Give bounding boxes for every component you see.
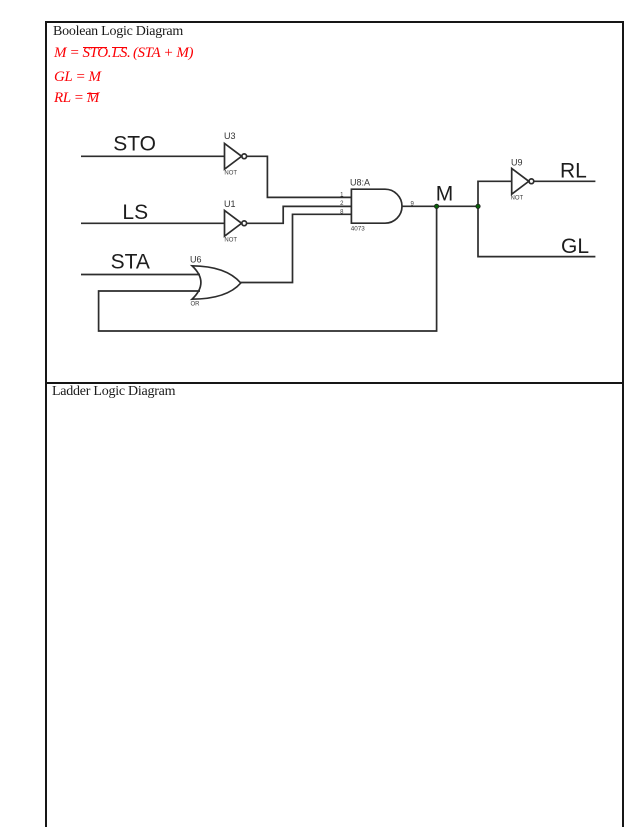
svg-text:OR: OR (191, 301, 201, 307)
svg-text:GL: GL (561, 235, 589, 258)
equation M = STO.LS.(STA+M) (54, 45, 193, 62)
section divider (45, 382, 624, 384)
wire AND output to node M (402, 205, 478, 207)
wire STO input (81, 155, 225, 157)
inverter U3 (225, 143, 247, 169)
wire U3 output to AND pin 1 (247, 156, 352, 197)
svg-text:4073: 4073 (351, 225, 366, 232)
wire STA input (81, 274, 200, 276)
svg-text:NOT: NOT (224, 171, 237, 177)
svg-text:STA: STA (111, 250, 150, 273)
inverter U1 (225, 210, 247, 236)
svg-text:U6: U6 (190, 255, 202, 265)
wire feedback M to OR input (99, 206, 437, 331)
svg-text:U9: U9 (511, 157, 523, 167)
wire GL branch (478, 206, 595, 256)
junction node M dot (434, 204, 438, 208)
svg-text:M: M (436, 182, 454, 205)
junction node dot at branch (476, 204, 480, 208)
wire LS input (81, 222, 225, 224)
wire node M to U9 input (478, 181, 512, 206)
title: Ladder Logic Diagram (52, 384, 175, 400)
svg-text:U3: U3 (224, 131, 236, 141)
svg-text:U1: U1 (224, 199, 236, 209)
svg-text:LS: LS (122, 201, 148, 224)
or gate U6 (192, 266, 241, 299)
inverter U9 (512, 168, 534, 194)
wire U1 output to AND pin 2 (247, 206, 352, 223)
svg-text:RL: RL (560, 160, 587, 183)
and gate U8:A (351, 189, 402, 223)
equation GL = M (54, 69, 101, 86)
equation RL = not M (54, 90, 99, 107)
wire U9 output RL (534, 180, 595, 182)
svg-text:NOT: NOT (511, 196, 524, 202)
svg-text:NOT: NOT (224, 238, 237, 244)
svg-text:STO: STO (113, 133, 156, 156)
svg-text:U8:A: U8:A (350, 178, 370, 188)
wire OR output to AND pin 8 (241, 214, 352, 282)
title: Boolean Logic Diagram (53, 24, 183, 40)
